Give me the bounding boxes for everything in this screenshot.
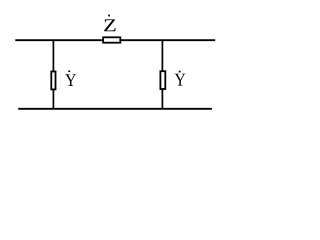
dot over Y left (68, 70, 70, 72)
label Y right value (175, 74, 186, 86)
dot over Y right (179, 71, 181, 73)
impedance Z series box (103, 37, 120, 42)
wire right shunt branch (161, 40, 163, 109)
dot over Z (108, 15, 110, 17)
wire left shunt branch (52, 40, 54, 109)
admittance Y right shunt box (160, 71, 165, 89)
wire bottom bus (18, 108, 212, 110)
label Z value (104, 19, 115, 31)
label Y left value (65, 74, 76, 86)
wire top bus (15, 39, 215, 41)
admittance Y left shunt box (51, 72, 55, 90)
